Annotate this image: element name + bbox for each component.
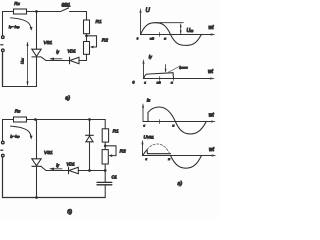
wiper loop R2 (b)	[105, 146, 116, 156]
plot3 current waveform	[143, 107, 206, 134]
plot4 blocking segment	[143, 150, 148, 156]
junction dot VD2 top	[88, 118, 91, 121]
gate wire (b)	[46, 170, 69, 172]
svg-text:R1: R1	[96, 19, 102, 25]
dimension arrowhead up	[27, 41, 29, 46]
curved arrow Iу~Iпр (a)	[11, 18, 32, 29]
svg-text:Iу: Iу	[56, 49, 59, 54]
plot4 negative half sine	[171, 156, 202, 169]
wire R1-R2 (b)	[104, 142, 106, 150]
resistor R1 (b)	[102, 129, 108, 142]
wire top-left a	[3, 12, 14, 36]
svg-text:VS1: VS1	[44, 40, 53, 45]
wire R1 to R2	[86, 34, 88, 42]
plot2 y-axis arrowhead	[142, 59, 144, 64]
curved arrowhead (a)	[30, 27, 33, 31]
svg-text:R2: R2	[120, 148, 126, 154]
diode VD2 bottom lead	[89, 142, 91, 171]
plot1 sine wave	[141, 23, 202, 46]
svg-text:б): б)	[67, 209, 72, 215]
svg-text:α: α	[143, 125, 145, 128]
wiper loop R2 (a)	[87, 36, 97, 47]
svg-text:Iу: Iу	[56, 163, 59, 168]
curved arrow Iу~Iпр (b)	[11, 126, 32, 137]
plot2 x-axis	[144, 78, 214, 80]
diode VD2 triangle	[86, 136, 93, 142]
plot3 axis tick	[159, 120, 161, 124]
svg-text:π: π	[173, 125, 175, 128]
wiper arrowhead R2 (a)	[90, 46, 93, 49]
svg-text:wt: wt	[208, 69, 214, 75]
terminal circle a1	[2, 36, 5, 39]
junction dot bottom b	[35, 196, 38, 199]
current arrow Iу (b)	[52, 168, 63, 170]
diode VD2 top lead	[89, 120, 91, 137]
plot1 Um arrowhead top	[180, 23, 182, 27]
svg-text:Iу~Iпр: Iу~Iпр	[9, 25, 20, 29]
svg-text:0: 0	[132, 81, 135, 85]
plot1 Um arrow	[180, 24, 182, 34]
plot1 y-axis	[140, 10, 142, 35]
wire top a to switch	[27, 11, 61, 13]
junction dot gate wire VD2	[88, 169, 91, 172]
svg-text:VS1: VS1	[44, 150, 53, 155]
wire R2 to gate wire (b)	[104, 164, 106, 171]
plot4 y-axis arrowhead	[141, 140, 143, 145]
junction dot R1-R2 (b)	[104, 144, 107, 147]
plot2 leader line	[169, 67, 180, 73]
resistor Rн (b)	[14, 117, 27, 122]
resistor R1 (a)	[84, 20, 90, 34]
terminal circle b1	[2, 141, 5, 144]
svg-text:Rн: Rн	[15, 109, 20, 114]
svg-text:π/2: π/2	[157, 80, 161, 84]
svg-text:π/2: π/2	[150, 36, 154, 40]
switch SB1 arm	[61, 8, 69, 11]
thyristor VS1 (a) triangle	[32, 49, 41, 56]
plot1 x-axis	[141, 34, 214, 36]
dimension line Uвх (a)	[27, 43, 29, 85]
wire top b	[27, 119, 106, 121]
svg-text:0: 0	[137, 36, 139, 40]
wire R2 to VD1 (a)	[79, 54, 87, 60]
svg-text:~: ~	[1, 147, 4, 152]
capacitor C1 plate bottom	[97, 184, 112, 186]
svg-text:Iу.мин: Iу.мин	[179, 66, 188, 70]
svg-text:VD1: VD1	[68, 49, 76, 54]
wire left lower (a)	[2, 52, 4, 87]
svg-text:π: π	[171, 81, 173, 84]
thyristor VS1 (a) anode lead	[36, 12, 38, 50]
capacitor C1 bottom lead	[104, 185, 106, 198]
thyristor VS1 (b) cathode bar	[32, 165, 41, 167]
diode VD1 (a) triangle	[70, 57, 79, 64]
wire VD1 to gate (a)	[46, 60, 70, 62]
resistor Rн (a)	[14, 9, 27, 14]
svg-text:UVS1: UVS1	[144, 135, 154, 141]
plot4 conduction line	[147, 153, 170, 155]
svg-text:Um: Um	[187, 28, 194, 34]
capacitor C1 top lead	[104, 171, 106, 182]
plot4 x-axis arrowhead	[212, 154, 217, 156]
svg-text:SB1: SB1	[62, 2, 71, 7]
plot4 y-axis	[142, 142, 144, 156]
plot3 x-axis arrowhead	[211, 120, 216, 122]
svg-text:U: U	[146, 8, 151, 14]
svg-text:Iу~Iпр: Iу~Iпр	[10, 134, 20, 139]
node A junction dot	[35, 10, 38, 13]
junction dot gate wire C1	[104, 169, 107, 172]
svg-text:π: π	[164, 37, 166, 40]
wire switch to corner	[70, 12, 87, 21]
plot1 y-axis arrowhead	[139, 8, 141, 13]
svg-text:VD1: VD1	[67, 161, 75, 166]
svg-text:Iн: Iн	[147, 98, 150, 104]
svg-text:~: ~	[1, 42, 4, 47]
capacitor C1 plate top	[97, 181, 112, 183]
svg-text:π: π	[168, 158, 170, 161]
terminal circle a2	[2, 49, 5, 52]
plot4 x-axis	[143, 155, 215, 157]
svg-text:wt: wt	[209, 25, 215, 31]
wire left lower (b)	[3, 157, 106, 197]
resistor R2 (a) potentiometer	[84, 42, 90, 55]
node junction dot b top	[34, 118, 37, 121]
plot2 y-axis	[143, 61, 145, 79]
plot3 x-axis	[143, 121, 214, 123]
svg-text:α: α	[145, 158, 147, 161]
plot1 peak level line	[155, 22, 183, 24]
plot2 axis tick 2	[172, 77, 174, 81]
terminal circle b2	[2, 154, 5, 157]
junction dot R1-R2 (a)	[85, 34, 88, 37]
svg-text:в): в)	[178, 181, 183, 187]
svg-text:R1: R1	[113, 128, 119, 134]
label SB1 underline	[62, 6, 71, 8]
thyristor VS1 (b) triangle	[32, 159, 41, 166]
svg-text:Rн: Rн	[14, 1, 19, 6]
svg-text:wt: wt	[209, 147, 215, 153]
wiper arrowhead R2 (b)	[109, 154, 112, 157]
plot1 axis tick	[158, 32, 160, 36]
gate lead diagonal (b)	[41, 167, 46, 171]
wire top-left b	[3, 120, 14, 142]
thyristor VS1 (a) cathode lead and bottom wire	[3, 57, 37, 87]
curved arrowhead (b)	[30, 136, 33, 140]
plot2 x-axis arrowhead	[210, 77, 215, 79]
svg-text:а): а)	[65, 95, 70, 101]
plot1 x-axis arrowhead	[211, 33, 216, 35]
svg-text:R2: R2	[102, 38, 108, 44]
R branch top lead (b)	[104, 120, 106, 129]
resistor R2 (b) potentiometer	[102, 150, 108, 164]
svg-text:α: α	[144, 81, 146, 84]
svg-text:Uвх: Uвх	[21, 58, 25, 64]
diode VD1 (a) cathode bar	[69, 57, 71, 64]
plot2 axis tick 1	[159, 76, 161, 80]
plot2 trigger arrowhead	[165, 69, 167, 73]
current arrow Iу (a)	[52, 58, 63, 60]
plot3 y-axis arrowhead	[142, 103, 144, 108]
plot1 Um arrowhead bottom	[180, 30, 182, 34]
plot3 y-axis	[142, 105, 144, 122]
plot2 trigger arrow	[165, 65, 167, 72]
diode VD2 cathode bar	[86, 134, 94, 136]
diode VD1 (b) triangle	[69, 167, 78, 174]
svg-text:Iу: Iу	[149, 54, 152, 60]
gate lead diagonal (a)	[41, 57, 46, 60]
thyristor VS1 (a) cathode bar	[32, 56, 41, 58]
dimension arrowhead down	[27, 81, 29, 86]
plot4 dashed supply arc	[147, 144, 170, 156]
wire VD1 to R branch (b)	[78, 170, 105, 172]
diode VD1 (b) cathode bar	[68, 167, 70, 174]
svg-text:wt: wt	[209, 113, 215, 119]
plot2 gate current hump	[144, 73, 174, 79]
svg-text:C1: C1	[112, 175, 117, 180]
thyristor VS1 (b) cathode lead	[36, 166, 38, 197]
thyristor VS1 (b) anode lead	[36, 120, 38, 159]
